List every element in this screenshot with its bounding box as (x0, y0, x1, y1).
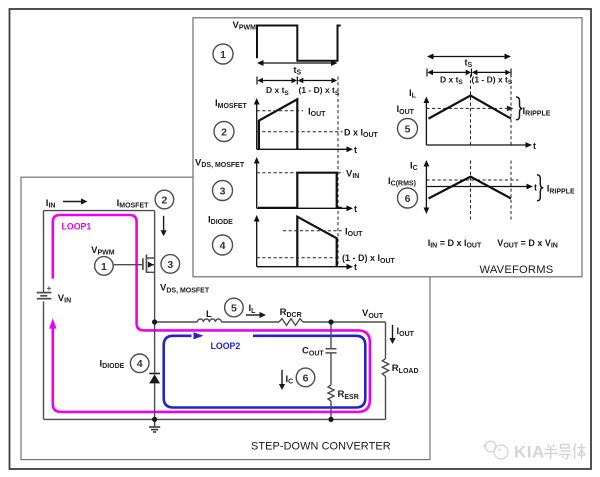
wire: inductor to RDCR (221, 321, 279, 323)
ts dimension arrow (waveform 1) (257, 60, 338, 66)
junction: diode-ground node (152, 417, 157, 422)
waveform 6 axes (vertical double arrow, horizontal t axis) (424, 160, 534, 214)
watermark glyph ti (573, 444, 586, 460)
svg-text:L: L (206, 309, 212, 320)
svg-text:t: t (533, 141, 536, 151)
arrow IOUT (down) (389, 325, 395, 344)
wire: RESR to bottom rail (330, 401, 332, 419)
svg-text:t: t (354, 262, 357, 272)
wire: top horizontal from battery to MOSFET drain (44, 210, 155, 212)
watermark glyph ban (544, 444, 559, 459)
junction: RESR bottom node (328, 417, 333, 422)
brace IRIPPLE (waveform 5) (516, 97, 523, 120)
svg-text:t: t (534, 182, 537, 192)
MOSFET arrow (148, 262, 154, 268)
resistor RLOAD zigzag (382, 359, 388, 377)
wire: COUT branch from output node (330, 322, 332, 348)
waveform 2 axes (254, 98, 353, 152)
svg-text:2: 2 (221, 127, 227, 139)
resistor RDCR zigzag (279, 319, 303, 326)
junction: switch node (152, 319, 157, 324)
resistor RESR zigzag (328, 385, 334, 401)
svg-text:5: 5 (231, 302, 237, 314)
svg-text:1: 1 (220, 49, 226, 61)
waveform 5 dashed IOUT level (426, 107, 507, 109)
waveform 5 IL triangle trace (429, 96, 512, 119)
waveform circle 4 (213, 235, 233, 255)
brace IRIPPLE (waveform 6) (537, 175, 543, 201)
D x ts dimension row (waveform 1) (257, 77, 337, 85)
node circle 2 (circuit) (155, 190, 174, 209)
wire: bottom ground rail (44, 418, 386, 420)
waveform 3 dashed VIN level (257, 172, 344, 174)
waveforms panel box (193, 18, 582, 277)
arrow IIN (63, 198, 88, 204)
svg-text:(1 - D) x tS: (1 - D) x tS (299, 85, 340, 97)
wire: RLOAD to bottom rail (385, 377, 387, 420)
svg-text:5: 5 (405, 124, 411, 136)
svg-text:(1 - D) x tS: (1 - D) x tS (472, 74, 513, 86)
node circle 3 (circuit) (161, 255, 180, 274)
waveform 2 dashed D x IOUT level (257, 131, 343, 133)
converter panel box (21, 177, 430, 459)
capacitor COUT plates (326, 349, 337, 353)
wire: diode anode down to ground rail (154, 383, 156, 419)
node circle 4 (circuit) (130, 354, 149, 373)
svg-text:6: 6 (303, 372, 309, 384)
svg-text:STEP-DOWN CONVERTER: STEP-DOWN CONVERTER (251, 440, 391, 452)
LOOP2 blue current loop (164, 336, 366, 408)
ts dimension arrow (waveform 5) (427, 54, 511, 60)
svg-text:KIA: KIA (514, 443, 545, 462)
ground symbol (149, 419, 160, 432)
waveform 3 axes (254, 157, 353, 211)
battery plus sign (47, 286, 51, 290)
svg-text:WAVEFORMS: WAVEFORMS (480, 264, 554, 276)
waveform 4 axes (254, 215, 353, 270)
wire: RDCR to VOUT corner (303, 321, 386, 323)
wire: switch node down to diode (154, 322, 156, 373)
arrow IL (right) (246, 312, 266, 318)
svg-text:3: 3 (167, 259, 173, 271)
svg-text:1: 1 (101, 261, 107, 273)
svg-text:LOOP1: LOOP1 (62, 221, 92, 231)
LOOP1 arrowhead (up) (49, 318, 56, 328)
waveform circle 1 (213, 44, 233, 64)
battery VIN (37, 293, 52, 299)
wire: MOSFET source down to switch node (154, 258, 156, 322)
svg-text:2: 2 (161, 194, 167, 206)
waveform 5 axes (424, 97, 533, 148)
waveform 2 IMOSFET trace (259, 99, 297, 149)
watermark logo (484, 441, 509, 459)
waveform circle 6 (398, 188, 418, 208)
node circle 1 (circuit) (95, 257, 114, 276)
waveform 4 dashed (1-D) x IOUT level (257, 257, 340, 259)
waveform 6 IC triangle trace (429, 177, 512, 199)
LOOP1 magenta current loop (53, 215, 370, 412)
waveform 4 dashed IOUT level (283, 230, 342, 232)
node circle 6 (circuit) (296, 368, 315, 387)
waveform 1 PWM trace (257, 26, 341, 61)
waveform circle 3 (213, 181, 233, 201)
wire: switch node to inductor (155, 321, 198, 323)
waveform circle 5 (398, 119, 418, 139)
svg-text:t: t (354, 204, 357, 214)
waveform 5 dashed verticals (471, 75, 512, 146)
svg-text:LOOP2: LOOP2 (211, 341, 241, 351)
wire: left vertical (battery branch) (43, 211, 45, 420)
waveform 6 dashed IC(RMS) level (426, 179, 518, 181)
arrow IC (down) (279, 370, 285, 390)
LOOP2 arrowhead (right) (194, 332, 204, 339)
wire: COUT to RESR (330, 353, 332, 384)
waveform 4 IDIODE trace (297, 217, 336, 267)
svg-text:4: 4 (220, 240, 226, 252)
node circle 5 (circuit) (225, 298, 244, 317)
D x ts dimension row (waveform 5) (427, 69, 511, 77)
junction: output node top (328, 319, 333, 324)
wire: VOUT right vertical down to RLOAD (385, 322, 387, 359)
svg-text:3: 3 (220, 186, 226, 198)
long dashed vertical at period end (337, 77, 339, 267)
wire: MOSFET drain vertical (154, 211, 156, 258)
waveform circle 2 (214, 122, 234, 142)
svg-text:4: 4 (137, 358, 143, 370)
diode D1 (149, 374, 160, 384)
waveform 6 dashed verticals (471, 161, 512, 220)
waveform 2 dashed IOUT level (257, 110, 303, 112)
watermark glyph dao (559, 445, 572, 460)
svg-text:t: t (354, 145, 357, 155)
svg-text:6: 6 (405, 193, 411, 205)
MOSFET Q1 (114, 255, 155, 273)
arrow IMOSFET (down) (161, 216, 167, 236)
waveform 3 VDS trace (258, 173, 342, 208)
inductor L (197, 319, 221, 322)
